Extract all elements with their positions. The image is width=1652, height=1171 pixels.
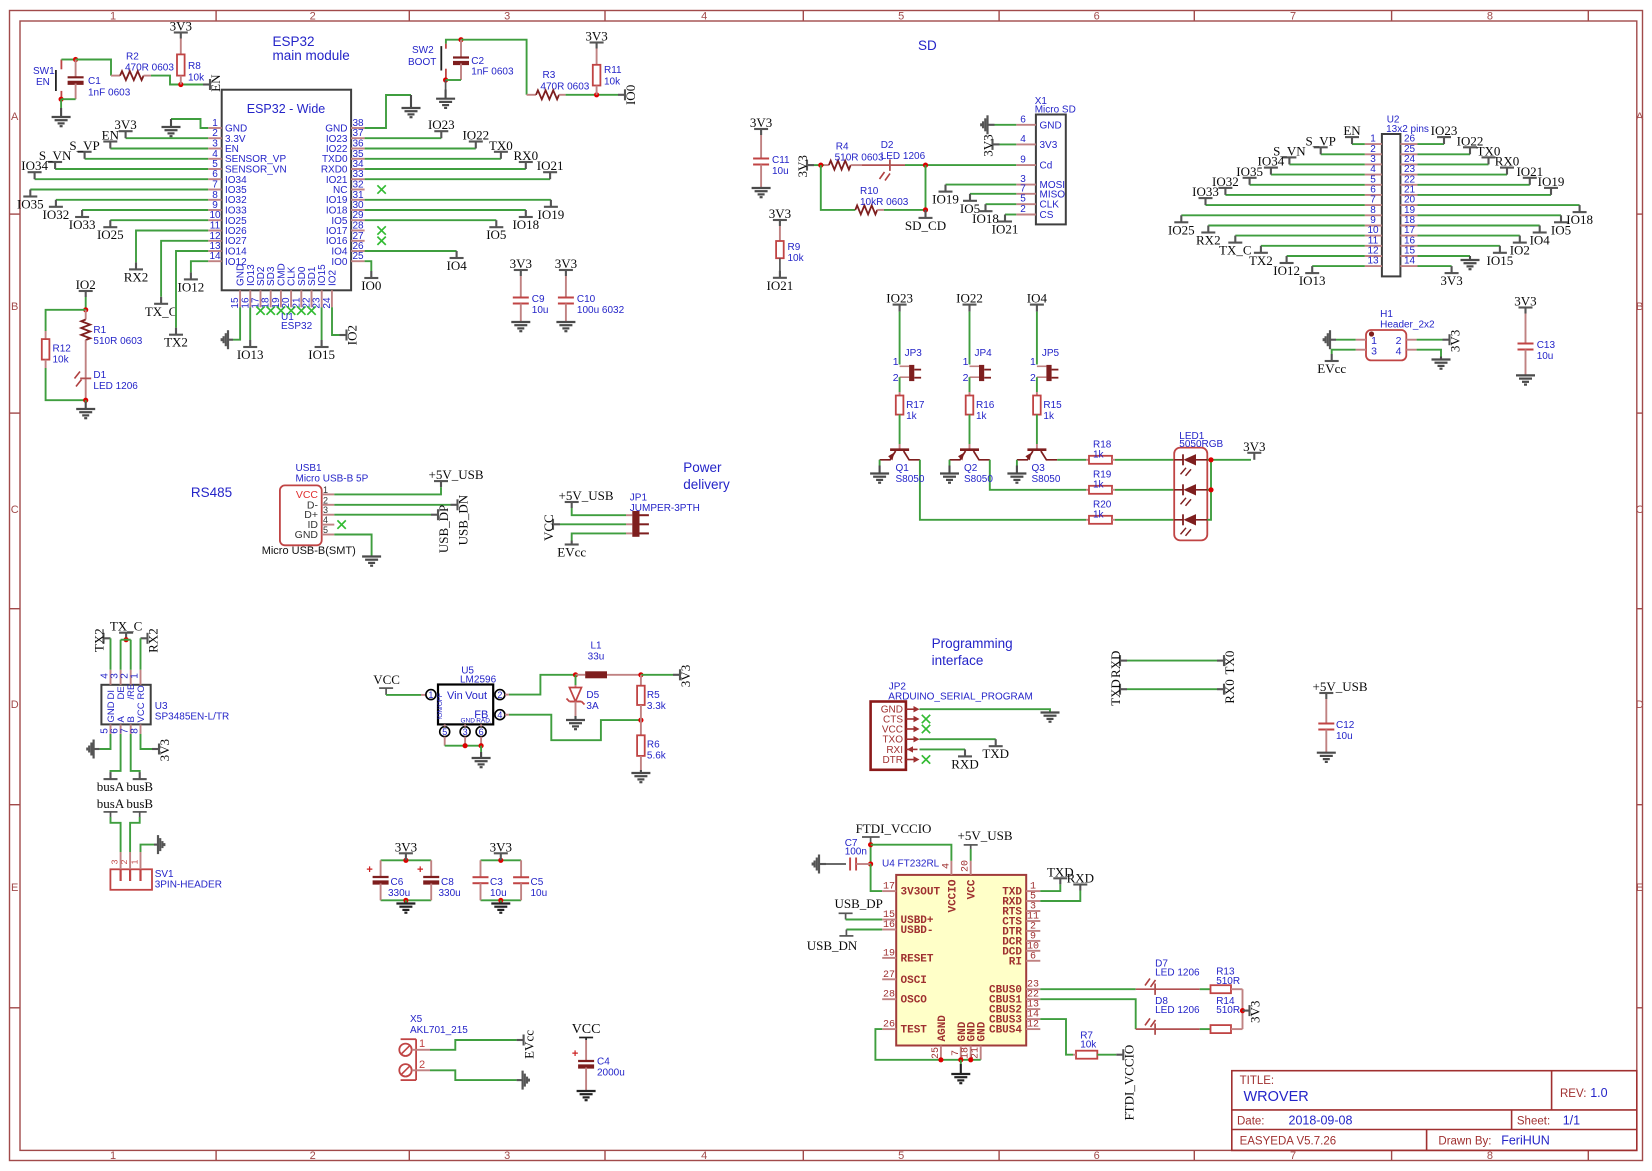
svg-text:RAD.: RAD. (476, 718, 492, 725)
svg-text:10u: 10u (1336, 731, 1353, 742)
svg-text:AGND: AGND (937, 1015, 949, 1042)
svg-text:4: 4 (1396, 346, 1402, 358)
svg-text:IO5: IO5 (486, 227, 506, 242)
svg-text:B: B (1636, 301, 1643, 313)
svg-text:10u: 10u (532, 305, 549, 316)
svg-text:10u: 10u (531, 888, 548, 899)
svg-text:4: 4 (1020, 134, 1026, 145)
svg-text:R16: R16 (976, 400, 995, 411)
svg-text:LM2596: LM2596 (460, 675, 497, 686)
svg-text:3V3: 3V3 (795, 155, 810, 177)
svg-text:R2: R2 (126, 52, 139, 63)
svg-text:26: 26 (883, 1020, 895, 1031)
svg-text:D5: D5 (586, 690, 599, 701)
svg-text:1.0: 1.0 (1590, 1086, 1607, 1100)
svg-text:IO34: IO34 (21, 158, 48, 173)
svg-text:D: D (11, 699, 19, 711)
svg-text:5.6k: 5.6k (647, 751, 667, 762)
svg-text:4: 4 (941, 863, 952, 869)
svg-text:3: 3 (110, 859, 120, 864)
svg-text:FeriHUN: FeriHUN (1501, 1134, 1550, 1148)
svg-text:MISO: MISO (1040, 189, 1066, 200)
svg-text:IO23: IO23 (886, 291, 913, 306)
svg-text:RS485: RS485 (191, 485, 232, 500)
svg-text:A: A (11, 111, 19, 123)
svg-text:330u: 330u (439, 888, 461, 899)
svg-text:JP1: JP1 (630, 493, 648, 504)
svg-text:D: D (1636, 699, 1644, 711)
svg-text:delivery: delivery (683, 477, 730, 492)
svg-text:TXD: TXD (982, 746, 1009, 761)
svg-text:C: C (1636, 504, 1644, 516)
svg-text:1: 1 (110, 11, 116, 23)
svg-text:10k: 10k (53, 355, 70, 366)
svg-text:D2: D2 (881, 140, 894, 151)
svg-text:Q2: Q2 (964, 463, 978, 474)
svg-text:IO32: IO32 (43, 207, 70, 222)
svg-text:REV:: REV: (1560, 1088, 1586, 1100)
svg-text:SW1: SW1 (33, 66, 55, 77)
svg-text:RX2: RX2 (124, 269, 149, 284)
svg-text:EASYEDA V5.7.26: EASYEDA V5.7.26 (1240, 1136, 1337, 1148)
svg-text:IO13: IO13 (237, 347, 264, 362)
svg-text:RESET: RESET (901, 953, 934, 965)
svg-text:IO33: IO33 (1192, 184, 1219, 199)
svg-text:10k: 10k (788, 253, 805, 264)
svg-text:1nF 0603: 1nF 0603 (471, 67, 514, 78)
svg-text:3V3: 3V3 (395, 839, 417, 854)
svg-text:6: 6 (1020, 114, 1026, 125)
svg-text:IO35: IO35 (1236, 164, 1263, 179)
svg-text:IO22: IO22 (956, 291, 983, 306)
svg-text:OSCI: OSCI (901, 975, 927, 987)
svg-text:IO21: IO21 (992, 222, 1019, 237)
svg-text:D1: D1 (93, 370, 106, 381)
svg-text:Sheet:: Sheet: (1517, 1116, 1550, 1128)
svg-text:10k: 10k (188, 73, 205, 84)
svg-text:IO13: IO13 (1299, 273, 1326, 288)
svg-text:A: A (1636, 111, 1644, 123)
svg-text:3V3: 3V3 (490, 839, 512, 854)
svg-text:RXD: RXD (1108, 651, 1123, 678)
svg-text:IO2: IO2 (76, 277, 96, 292)
svg-text:7: 7 (1020, 183, 1026, 194)
svg-text:2: 2 (323, 495, 328, 505)
svg-text:ESP32: ESP32 (281, 321, 313, 332)
svg-text:GND: GND (977, 1021, 989, 1041)
svg-text:SP3485EN-L/TR: SP3485EN-L/TR (155, 712, 229, 723)
svg-text:Drawn By:: Drawn By: (1438, 1136, 1491, 1148)
svg-text:3PIN-HEADER: 3PIN-HEADER (155, 880, 222, 891)
svg-text:C12: C12 (1336, 720, 1355, 731)
svg-text:8: 8 (1487, 1150, 1493, 1162)
svg-text:VCC: VCC (541, 514, 556, 541)
svg-text:IO19: IO19 (1538, 174, 1565, 189)
svg-text:ESP32: ESP32 (273, 34, 315, 49)
svg-text:3A: 3A (586, 701, 599, 712)
svg-text:+5V_USB: +5V_USB (1312, 679, 1367, 694)
svg-text:IO4: IO4 (446, 258, 467, 273)
svg-text:3V3: 3V3 (555, 256, 577, 271)
svg-text:470R 0603: 470R 0603 (540, 82, 589, 93)
svg-text:busA: busA (97, 796, 125, 811)
svg-text:510R 0603: 510R 0603 (93, 336, 142, 347)
svg-text:3V3: 3V3 (1040, 140, 1058, 151)
svg-text:3V3: 3V3 (157, 739, 172, 761)
svg-text:TX_C: TX_C (145, 304, 178, 319)
svg-text:TX_C: TX_C (1219, 243, 1252, 258)
svg-text:TX0: TX0 (489, 138, 513, 153)
svg-text:EVcc: EVcc (557, 545, 586, 560)
svg-text:S8050: S8050 (896, 474, 925, 485)
svg-text:TITLE:: TITLE: (1240, 1075, 1275, 1087)
svg-text:EN: EN (36, 77, 50, 88)
svg-text:JP3: JP3 (905, 348, 923, 359)
svg-text:27: 27 (883, 970, 895, 981)
svg-text:330u: 330u (388, 888, 410, 899)
svg-text:USB_DN: USB_DN (456, 494, 471, 545)
svg-text:2000u: 2000u (597, 1068, 625, 1079)
svg-text:IO4: IO4 (1530, 233, 1551, 248)
svg-text:R3: R3 (543, 70, 556, 81)
svg-text:TX0: TX0 (1222, 651, 1237, 675)
svg-text:JP5: JP5 (1042, 348, 1060, 359)
svg-text:BOOT: BOOT (408, 57, 436, 68)
svg-text:10u: 10u (1537, 351, 1554, 362)
svg-text:IO21: IO21 (767, 278, 794, 293)
svg-text:1: 1 (428, 690, 433, 700)
svg-text:GND: GND (461, 718, 476, 725)
svg-text:3V3: 3V3 (170, 19, 192, 34)
svg-text:IO12: IO12 (178, 279, 205, 294)
svg-text:Q3: Q3 (1032, 463, 1046, 474)
svg-text:2: 2 (1020, 204, 1026, 215)
svg-text:R12: R12 (53, 344, 72, 355)
svg-text:R15: R15 (1043, 400, 1062, 411)
svg-text:5: 5 (898, 1150, 904, 1162)
svg-text:3: 3 (463, 727, 468, 737)
svg-text:510R 0603: 510R 0603 (835, 153, 884, 164)
svg-text:6: 6 (1094, 1150, 1100, 1162)
svg-text:RI: RI (1009, 956, 1022, 968)
svg-text:IO33: IO33 (69, 217, 96, 232)
svg-text:10u: 10u (490, 888, 507, 899)
svg-text:100n: 100n (845, 847, 867, 858)
svg-text:FTDI_VCCIO: FTDI_VCCIO (856, 821, 932, 836)
svg-text:S_VP: S_VP (1306, 133, 1336, 148)
svg-text:CS: CS (1040, 210, 1054, 221)
svg-text:USB_DP: USB_DP (834, 896, 882, 911)
svg-text:TXD: TXD (1108, 679, 1123, 706)
svg-text:C2: C2 (471, 56, 484, 67)
svg-text:LED 1206: LED 1206 (1155, 1005, 1200, 1016)
svg-text:25: 25 (352, 251, 364, 262)
svg-text:2: 2 (893, 372, 899, 384)
svg-text:R6: R6 (647, 740, 660, 751)
svg-text:3V3: 3V3 (510, 256, 532, 271)
svg-text:IO0: IO0 (361, 278, 381, 293)
svg-text:Header_2x2: Header_2x2 (1380, 320, 1435, 331)
svg-text:7: 7 (1290, 11, 1296, 23)
svg-text:4: 4 (701, 11, 707, 23)
svg-text:EVcc: EVcc (1317, 361, 1346, 376)
svg-text:Micro USB-B(SMT): Micro USB-B(SMT) (262, 545, 356, 557)
svg-text:SW2: SW2 (412, 45, 434, 56)
svg-text:TEST: TEST (901, 1025, 928, 1037)
svg-text:16: 16 (883, 920, 895, 931)
svg-text:+5V_USB: +5V_USB (428, 467, 483, 482)
svg-text:3V3: 3V3 (1514, 294, 1536, 309)
svg-text:3V3: 3V3 (1248, 1001, 1263, 1023)
svg-text:14: 14 (1404, 256, 1416, 267)
svg-text:ESP32 - Wide: ESP32 - Wide (247, 102, 326, 116)
svg-text:1nF 0603: 1nF 0603 (88, 88, 131, 99)
svg-text:5: 5 (898, 11, 904, 23)
svg-text:1: 1 (130, 859, 140, 864)
svg-text:IO19: IO19 (538, 207, 565, 222)
svg-text:ARDUINO_SERIAL_PROGRAM: ARDUINO_SERIAL_PROGRAM (888, 692, 1032, 703)
svg-text:+: + (417, 864, 423, 876)
svg-text:VCCIO: VCCIO (947, 879, 959, 912)
svg-text:3.3k: 3.3k (647, 701, 667, 712)
svg-text:AKL701_215: AKL701_215 (410, 1025, 468, 1036)
svg-text:Vout: Vout (465, 690, 487, 702)
svg-text:3: 3 (504, 11, 510, 23)
svg-text:28: 28 (883, 990, 895, 1001)
svg-text:C: C (11, 504, 19, 516)
svg-text:IO5: IO5 (1551, 222, 1571, 237)
svg-text:10kR 0603: 10kR 0603 (860, 197, 909, 208)
svg-text:RX2: RX2 (1196, 233, 1221, 248)
svg-text:E: E (11, 882, 18, 894)
svg-text:busB: busB (126, 796, 153, 811)
svg-text:1: 1 (130, 673, 141, 679)
svg-text:WROVER: WROVER (1244, 1089, 1309, 1105)
svg-text:VCC: VCC (967, 879, 979, 899)
svg-text:C13: C13 (1537, 340, 1556, 351)
svg-text:TX2: TX2 (92, 628, 107, 652)
svg-text:1: 1 (963, 356, 969, 368)
svg-text:C6: C6 (391, 877, 404, 888)
svg-text:OSCO: OSCO (901, 995, 928, 1007)
svg-text:H1: H1 (1380, 309, 1393, 320)
svg-text:1: 1 (419, 1038, 425, 1050)
svg-text:S8050: S8050 (964, 474, 993, 485)
svg-text:470R 0603: 470R 0603 (125, 63, 174, 74)
svg-text:!ON/OFF: !ON/OFF (437, 693, 444, 719)
svg-text:IO12: IO12 (1273, 263, 1300, 278)
svg-text:14: 14 (209, 251, 221, 262)
svg-text:C10: C10 (577, 294, 596, 305)
svg-text:8: 8 (130, 728, 141, 734)
svg-text:R4: R4 (836, 142, 849, 153)
svg-text:EVcc: EVcc (522, 1030, 537, 1059)
svg-text:DTR: DTR (882, 755, 903, 766)
svg-text:2: 2 (1030, 372, 1036, 384)
svg-text:1k: 1k (1093, 509, 1105, 520)
svg-text:busB: busB (126, 779, 153, 794)
svg-text:USBD-: USBD- (901, 925, 934, 937)
svg-text:3V3: 3V3 (981, 134, 996, 156)
svg-text:S8050: S8050 (1032, 474, 1061, 485)
svg-text:1/1: 1/1 (1563, 1114, 1580, 1128)
svg-text:IO25: IO25 (1168, 222, 1195, 237)
svg-text:3V3: 3V3 (678, 665, 693, 687)
svg-text:IO0: IO0 (331, 257, 348, 268)
svg-text:2: 2 (310, 11, 316, 23)
svg-text:interface: interface (932, 653, 984, 668)
svg-text:8: 8 (1487, 11, 1493, 23)
svg-text:3V3OUT: 3V3OUT (901, 887, 941, 899)
svg-text:VCC: VCC (136, 702, 147, 722)
svg-text:3V3: 3V3 (1448, 330, 1463, 352)
svg-text:+5V_USB: +5V_USB (957, 828, 1012, 843)
svg-text:R10: R10 (860, 186, 879, 197)
svg-text:17: 17 (883, 882, 895, 893)
svg-text:3: 3 (323, 505, 328, 515)
svg-text:IO18: IO18 (512, 217, 539, 232)
svg-text:EN: EN (102, 128, 120, 143)
svg-text:7: 7 (1290, 1150, 1296, 1162)
svg-text:2: 2 (497, 690, 502, 700)
svg-text:1: 1 (893, 356, 899, 368)
svg-text:B: B (11, 301, 18, 313)
svg-text:3V3: 3V3 (1440, 273, 1462, 288)
svg-text:6: 6 (1030, 951, 1036, 962)
svg-text:+5V_USB: +5V_USB (558, 488, 613, 503)
svg-text:RO: RO (136, 685, 147, 699)
svg-text:IO35: IO35 (17, 197, 44, 212)
svg-text:21: 21 (971, 1047, 982, 1059)
svg-text:USB_DP: USB_DP (436, 505, 451, 553)
svg-text:FTDI_VCCIO: FTDI_VCCIO (1121, 1045, 1136, 1121)
svg-text:2: 2 (119, 859, 129, 864)
svg-text:SV1: SV1 (155, 869, 174, 880)
svg-text:3V3: 3V3 (769, 206, 791, 221)
svg-text:IO21: IO21 (537, 158, 564, 173)
svg-text:Cd: Cd (1040, 161, 1053, 172)
svg-text:IO25: IO25 (97, 227, 124, 242)
svg-text:SD_CD: SD_CD (905, 218, 946, 233)
svg-text:5: 5 (323, 525, 328, 535)
svg-text:USB1: USB1 (296, 463, 323, 474)
svg-text:1: 1 (110, 1150, 116, 1162)
svg-text:TX_C: TX_C (110, 619, 143, 634)
svg-text:TX2: TX2 (164, 335, 188, 350)
svg-text:19: 19 (883, 948, 895, 959)
svg-text:Micro USB-B 5P: Micro USB-B 5P (296, 474, 369, 485)
svg-text:C8: C8 (441, 877, 454, 888)
svg-text:JUMPER-3PTH: JUMPER-3PTH (630, 503, 700, 514)
svg-text:L1: L1 (590, 641, 602, 652)
svg-text:IO19: IO19 (932, 192, 959, 207)
svg-text:LED 1206: LED 1206 (881, 151, 926, 162)
svg-text:VCC: VCC (572, 1022, 601, 1037)
svg-text:RX0: RX0 (1222, 679, 1237, 704)
svg-text:6: 6 (1094, 11, 1100, 23)
svg-text:25: 25 (931, 1047, 942, 1059)
svg-text:Date:: Date: (1237, 1116, 1265, 1128)
svg-text:3: 3 (504, 1150, 510, 1162)
svg-text:CBUS4: CBUS4 (989, 1025, 1022, 1037)
svg-text:R5: R5 (647, 690, 660, 701)
svg-text:4: 4 (701, 1150, 707, 1162)
svg-text:10k: 10k (604, 77, 621, 88)
svg-text:5050RGB: 5050RGB (1179, 439, 1223, 450)
svg-text:1: 1 (323, 485, 328, 495)
svg-text:4: 4 (323, 515, 328, 525)
svg-text:C11: C11 (772, 155, 790, 166)
svg-text:IO2: IO2 (345, 325, 360, 345)
svg-text:C1: C1 (88, 76, 101, 87)
svg-text:IO2: IO2 (327, 269, 338, 286)
svg-text:1k: 1k (906, 411, 918, 422)
svg-text:3V3: 3V3 (750, 115, 772, 130)
svg-text:6: 6 (479, 727, 484, 737)
svg-text:510R: 510R (1216, 976, 1240, 987)
svg-text:E: E (1636, 882, 1643, 894)
svg-text:R1: R1 (93, 325, 106, 336)
svg-text:TX2: TX2 (1249, 253, 1273, 268)
svg-text:IO23: IO23 (1431, 123, 1458, 138)
svg-text:S_VP: S_VP (69, 138, 99, 153)
svg-text:JP4: JP4 (975, 348, 993, 359)
svg-text:EN: EN (1343, 123, 1361, 138)
svg-text:GND: GND (295, 529, 319, 541)
svg-text:1k: 1k (976, 411, 988, 422)
svg-text:IO0: IO0 (623, 85, 638, 105)
svg-text:10k: 10k (1080, 1040, 1097, 1051)
svg-text:busA: busA (97, 779, 125, 794)
svg-text:IO4: IO4 (1027, 291, 1048, 306)
svg-text:Micro SD: Micro SD (1035, 105, 1076, 116)
svg-text:2018-09-08: 2018-09-08 (1289, 1114, 1353, 1128)
svg-text:+: + (366, 864, 372, 876)
svg-text:1k: 1k (1043, 411, 1055, 422)
svg-text:LED 1206: LED 1206 (1155, 968, 1200, 979)
svg-text:Vin: Vin (447, 690, 463, 702)
svg-text:C9: C9 (532, 294, 545, 305)
svg-text:33u: 33u (588, 652, 605, 663)
svg-text:IO15: IO15 (308, 347, 335, 362)
svg-text:510R: 510R (1216, 1005, 1240, 1016)
svg-text:1k: 1k (1093, 449, 1105, 460)
svg-text:Programming: Programming (932, 636, 1013, 651)
svg-text:12: 12 (1027, 1020, 1039, 1031)
svg-text:X5: X5 (410, 1014, 423, 1025)
svg-text:SD: SD (918, 38, 937, 53)
svg-text:RXD: RXD (951, 756, 978, 771)
svg-text:R11: R11 (604, 65, 622, 76)
svg-text:U3: U3 (155, 701, 168, 712)
svg-text:IO15: IO15 (1487, 253, 1514, 268)
svg-text:+: + (572, 1048, 578, 1060)
svg-text:IO23: IO23 (428, 117, 455, 132)
svg-text:IO22: IO22 (462, 128, 489, 143)
svg-text:100u 6032: 100u 6032 (577, 305, 625, 316)
svg-text:4: 4 (497, 710, 502, 720)
svg-text:20: 20 (961, 860, 972, 872)
svg-text:LED 1206: LED 1206 (93, 381, 138, 392)
svg-text:USB_DN: USB_DN (807, 938, 858, 953)
svg-text:RX2: RX2 (146, 628, 161, 653)
svg-text:2: 2 (963, 372, 969, 384)
svg-text:U4 FT232RL: U4 FT232RL (882, 859, 940, 870)
svg-text:1k: 1k (1093, 479, 1105, 490)
svg-text:GND: GND (1040, 120, 1062, 131)
svg-text:VCC: VCC (373, 672, 400, 687)
svg-text:R8: R8 (188, 61, 201, 72)
